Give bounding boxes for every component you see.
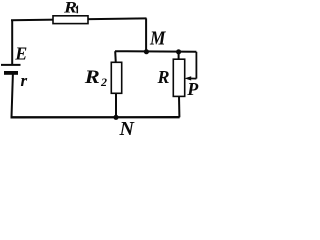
junction dot node M — [144, 49, 149, 54]
wire left side lower (battery to bottom) — [12, 74, 13, 118]
rheostat R (vertical box) — [173, 59, 184, 96]
junction dot R top — [176, 49, 181, 54]
wire M vertical drop — [145, 18, 147, 51]
svg-text:N: N — [119, 118, 136, 137]
svg-text:R: R — [84, 67, 100, 88]
svg-text:2: 2 — [100, 75, 107, 89]
wire bottom (node N rail) — [11, 116, 180, 118]
wire R top stub — [178, 52, 180, 60]
svg-text:E: E — [14, 44, 27, 64]
resistor R1 (box on top wire) — [53, 16, 88, 24]
svg-text:P: P — [186, 79, 199, 99]
wire left side upper (to battery) — [11, 20, 13, 65]
svg-text:R: R — [157, 67, 170, 87]
wire top (battery + to R1 to M drop) — [11, 18, 147, 20]
battery short thick plate (r) — [4, 71, 18, 75]
wire middle horizontal (node M rail) — [115, 50, 196, 53]
wire R bottom stub — [178, 96, 180, 117]
wire wiper arrow shaft — [189, 77, 197, 79]
svg-text:r: r — [21, 71, 28, 90]
svg-text:M: M — [149, 27, 166, 49]
wire wiper right vertical — [195, 52, 197, 79]
junction dot node N — [113, 115, 118, 120]
svg-text:R: R — [63, 0, 78, 17]
battery E long plate — [1, 64, 21, 66]
arrowhead of wiper P — [184, 76, 191, 80]
wire R2 top stub — [114, 51, 117, 63]
resistor R2 (vertical box) — [111, 62, 121, 93]
wire R2 bottom stub — [115, 93, 117, 117]
